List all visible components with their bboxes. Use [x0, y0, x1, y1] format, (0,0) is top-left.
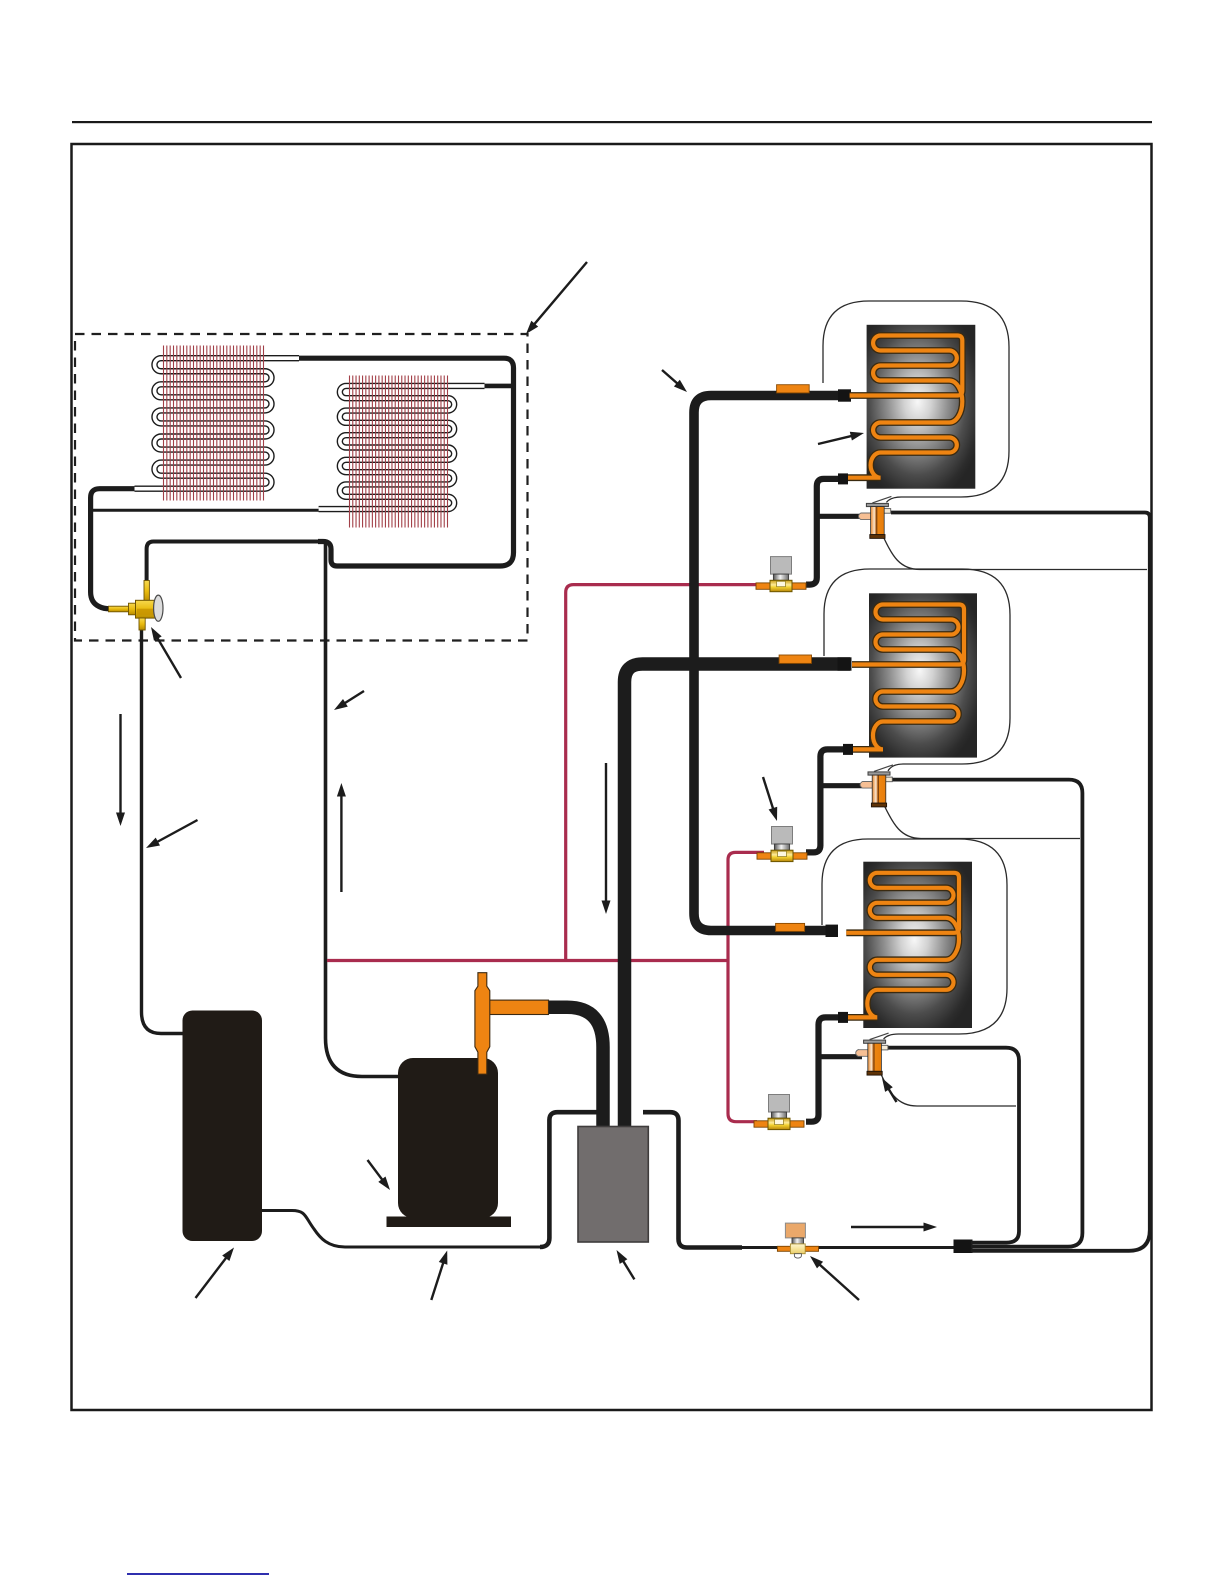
arrow: hot gas flow down: [605, 763, 607, 905]
wire: TXV 2 feed branch: [820, 783, 862, 788]
node: suction junction block: [954, 1240, 973, 1254]
wire: evaporator 2 outlet to TXV/solenoid jog: [806, 749, 851, 852]
wire: condenser outlet downcomer: [91, 489, 137, 609]
arrow: pointer to solenoid 2: [763, 777, 774, 812]
valve: suction service valve: [777, 1223, 818, 1258]
component: evaporator 3 coil: [842, 873, 959, 1018]
wire: TXV 3 feed branch: [819, 1054, 863, 1059]
arrow: pointer to feed pipe corner: [662, 370, 680, 386]
wire: TXV 1 feed branch: [817, 514, 862, 519]
wire: discharge pipe into unit cooler box: [548, 1007, 603, 1129]
arrow: pointer to liquid drop line: [154, 820, 197, 844]
valve: liquid solenoid valve 2: [757, 827, 807, 862]
arrow: pointer to liquid line: [342, 691, 364, 705]
arrow: pointer to condensing unit boundary: [532, 262, 587, 327]
valve: compressor discharge service valve (orange tee): [475, 973, 549, 1074]
condenser coil A (left): [135, 358, 300, 489]
wire: suction loop right ear to service valve and junction: [643, 1112, 742, 1247]
wire: right coil outlet return line: [91, 509, 320, 512]
arrow: liquid flow down: [119, 714, 121, 817]
component: evaporator 2 coil: [848, 605, 964, 750]
component: evaporator 1 coil: [846, 336, 963, 478]
wire: TXV2 external equalizer line: [884, 805, 1080, 839]
arrow: pointer to suction loop: [431, 1260, 444, 1301]
wire: right condenser coil feed stub: [483, 384, 512, 389]
wire: page header rule: [72, 121, 1152, 123]
valve: liquid solenoid valve 3: [754, 1095, 804, 1130]
valve: king/receiver service valve: [109, 581, 164, 631]
arrow: pointer to receiver: [196, 1255, 229, 1298]
node: condensing-unit dashed boundary: [75, 334, 528, 641]
component: compressor mounting base: [387, 1217, 512, 1228]
node: pipe end cap evap2 feed: [838, 657, 852, 670]
arrow: pointer to suction service valve: [817, 1262, 859, 1300]
component: evaporator 3 panel: [863, 862, 972, 1028]
component: compressor: [398, 1058, 498, 1218]
wire: TXV1 external equalizer line: [883, 536, 1147, 570]
component: heat-exchanger sleeve evap3 feed: [776, 923, 805, 931]
arrow: pointer to compressor: [368, 1160, 385, 1182]
arrow: pointer to king valve: [156, 635, 181, 678]
wire: red branch riser to solenoid 1: [566, 585, 762, 959]
wire: evaporator 1 outlet to TXV/solenoid jog: [806, 479, 846, 585]
wire: red branch riser solenoid 2 to 3: [728, 852, 764, 1121]
wire: suction line from TXV2: [892, 780, 1083, 1247]
node: pipe end cap evap1 outlet: [838, 473, 848, 484]
node: evaporator 2 cabinet outline: [824, 569, 1010, 771]
component: evaporator 2 panel: [869, 593, 977, 757]
node: pipe end cap evap1 feed: [838, 389, 851, 401]
condenser fins B: [350, 376, 448, 528]
node: footer link underline: [127, 1573, 269, 1575]
arrow: pointer to TXV3: [887, 1086, 897, 1102]
arrow: pointer to evaporator 1: [818, 435, 855, 444]
wire: suction line from TXV1 (right riser): [891, 513, 1150, 1251]
node: evaporator 3 cabinet outline: [822, 839, 1007, 1039]
wire: evaporator 3 outlet to TXV/solenoid jog: [806, 1017, 846, 1121]
wire: receiver liquid riser pipe: [147, 542, 318, 582]
component: liquid receiver: [183, 1011, 263, 1242]
valve: thermostatic expansion valve TXV2: [860, 765, 893, 807]
wire: receiver outlet to suction loop: [262, 1211, 544, 1248]
valve: liquid solenoid valve 1: [756, 557, 806, 592]
node: pipe end cap evap2 outlet: [843, 744, 853, 755]
wire: main border frame: [72, 144, 1152, 1410]
arrow: suction flow right: [851, 1226, 928, 1228]
wire: suction line to junction: [740, 1246, 955, 1249]
wire: suction line from TXV3: [887, 1048, 1019, 1243]
node: pipe end cap evap3 feed: [826, 925, 839, 937]
wire: hot-gas riser pipe P1: [625, 664, 851, 1129]
wire: suction loop left ear (behind unit box): [540, 1112, 600, 1247]
wire: refrigerant feed pipe P2: [694, 396, 851, 931]
condenser coil B (right): [319, 386, 485, 509]
wire: king valve to receiver liquid line: [142, 629, 185, 1034]
valve: thermostatic expansion valve TXV1: [859, 496, 892, 538]
wire: condenser inlet pipe to right riser: [297, 358, 514, 566]
node: pipe end cap evap3 outlet: [838, 1012, 848, 1023]
component: unit cooler / accumulator box: [578, 1127, 648, 1243]
component: heat-exchanger sleeve evap1 feed: [777, 385, 810, 393]
arrow: pointer to unit cooler box: [621, 1258, 634, 1279]
wire: liquid header (red horizontal): [327, 959, 727, 962]
condenser fins A: [164, 346, 264, 501]
wire: TXV3 external equalizer line: [880, 1072, 1016, 1106]
wire: liquid line to compressor (mid vertical): [326, 542, 400, 1077]
node: evaporator 1 cabinet outline: [823, 301, 1009, 502]
component: heat-exchanger sleeve evap2 feed: [779, 655, 811, 663]
component: evaporator 1 panel: [867, 325, 976, 489]
valve: thermostatic expansion valve TXV3: [856, 1033, 889, 1075]
arrow: discharge flow up: [340, 793, 342, 893]
